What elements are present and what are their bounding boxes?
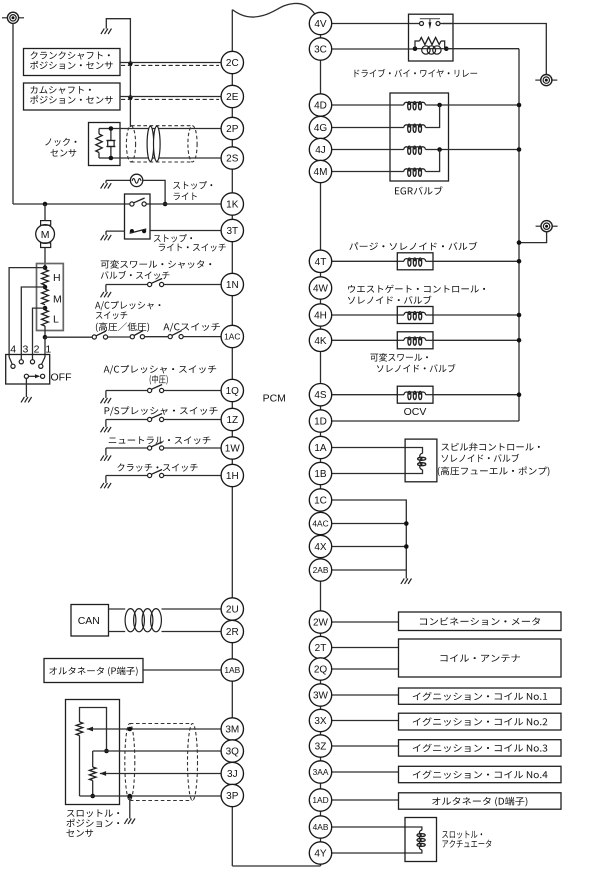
label clutch switch [117, 463, 197, 471]
switch AC pressure hi-lo a [92, 331, 107, 339]
label knock line1 [45, 138, 76, 146]
wire CAN 2U seg1 [109, 608, 126, 610]
coil EGR 4D [404, 102, 426, 110]
pin 1N [221, 273, 243, 295]
svg-text:4M: 4M [314, 167, 328, 178]
resistor H [42, 270, 49, 286]
wire EGR 4J out [425, 149, 519, 151]
label AC mid pressure line1 [104, 365, 217, 374]
wire EGR 4D out [425, 104, 519, 106]
label AC mid pressure line2 [150, 375, 168, 385]
svg-text:4J: 4J [315, 145, 326, 156]
label swirl shutter line2 [101, 271, 170, 280]
wire ignition coil 2 row [332, 720, 399, 722]
label H [53, 272, 61, 284]
pin 1AB [221, 659, 243, 681]
pin 3W [309, 684, 331, 706]
svg-text:3J: 3J [227, 769, 238, 780]
svg-text:3P: 3P [226, 791, 239, 802]
wire 4AC row [332, 523, 407, 525]
node feed 4J [517, 147, 522, 152]
coil solenoid 4T [398, 258, 434, 266]
wire 4D row [332, 104, 404, 106]
pin 1B [309, 462, 331, 484]
wire TPS inner left [79, 736, 81, 797]
wire combination meter row [332, 621, 399, 623]
label spill line1 [441, 443, 539, 452]
svg-text:2: 2 [34, 344, 40, 356]
lamp stop light [130, 174, 142, 186]
shield tube TPS [125, 724, 198, 801]
wire res bottom [44, 326, 46, 337]
label OFF [51, 372, 72, 384]
terminal T3 [536, 221, 558, 232]
label stop switch line2 [159, 244, 226, 252]
svg-text:4AC: 4AC [312, 519, 328, 529]
label spill line2 [442, 454, 520, 462]
label combination meter [420, 617, 540, 625]
box camshaft position sensor [24, 83, 121, 110]
wire ignition coil 4 row [332, 771, 399, 773]
wire 4K row right [433, 339, 519, 341]
label TPS line3 [66, 829, 93, 837]
svg-text:1AC: 1AC [224, 332, 240, 342]
node shield 3M [128, 727, 133, 732]
label pin3 [22, 344, 28, 356]
box solenoid 4K [397, 332, 433, 349]
wire T1 down to 1K row [12, 23, 14, 204]
pin 4D [309, 94, 331, 116]
relay contact [409, 19, 453, 30]
wire 1AC row seg1 [45, 336, 92, 338]
label swirl shutter line1 [101, 260, 211, 269]
pin 3Q [221, 740, 243, 762]
box solenoid 4H [397, 307, 433, 324]
pin 2E [221, 85, 243, 107]
label drive-by-wire relay [354, 69, 477, 77]
pin 3J [221, 762, 243, 784]
wire 4G row [332, 127, 404, 129]
label camshaft line1 [31, 86, 91, 94]
wire 4V row [332, 23, 409, 25]
svg-text:CAN: CAN [78, 615, 100, 627]
node feed 4H [517, 313, 522, 318]
ground G3 [101, 235, 112, 240]
svg-text:1H: 1H [226, 471, 239, 482]
pin 2R [221, 620, 243, 642]
wire PCM left bus [231, 10, 233, 866]
svg-text:4Y: 4Y [314, 849, 327, 860]
svg-text:3AA: 3AA [313, 767, 329, 777]
node res mid2 [43, 306, 48, 311]
wire 1AC row seg4 [183, 336, 221, 338]
box alternator P terminal [44, 659, 143, 683]
wire tap pin2 [33, 308, 46, 359]
wire 3T row [150, 230, 221, 232]
svg-text:M: M [53, 294, 62, 306]
wire 4M row [332, 171, 404, 173]
label neutral switch [109, 436, 211, 444]
switch clutch 1H row [101, 470, 222, 489]
svg-text:4X: 4X [314, 542, 327, 553]
wire 3Q row [93, 750, 222, 752]
node res mid1 [43, 285, 48, 290]
label TPS line1 [67, 809, 119, 817]
pin 1Z [221, 408, 243, 430]
pin 1W [221, 437, 243, 459]
svg-text:2S: 2S [226, 154, 239, 165]
wire 2E shield dashed [121, 98, 219, 100]
switch AC pressure mid 1Q row [101, 385, 222, 404]
svg-text:OFF: OFF [51, 372, 72, 384]
wire EGR 4G out [425, 105, 439, 127]
label PCM [263, 393, 286, 405]
node feed 4D [517, 103, 522, 108]
pin 4AC [309, 512, 331, 534]
wire PCM right bus [320, 12, 322, 866]
label stop light line2 [174, 192, 197, 200]
switch PS pressure 1Z row [101, 414, 222, 433]
wire 4K row left [332, 339, 398, 341]
pin 4M [309, 160, 331, 182]
switch neutral 1W row [101, 442, 222, 461]
relay coil wire [415, 46, 446, 54]
contact pin3 [19, 360, 23, 364]
svg-text:3: 3 [22, 344, 28, 356]
box alternator D terminal [399, 793, 562, 809]
label alternator D terminal [432, 797, 527, 807]
pin 4V [309, 12, 331, 34]
box combination meter [399, 612, 562, 631]
label AC pressure line1 [95, 301, 160, 310]
label pin1 [45, 344, 51, 356]
svg-text:4D: 4D [314, 101, 327, 112]
capacitor knock piezo [106, 141, 115, 147]
wire motor to resistors [44, 248, 46, 268]
svg-text:2T: 2T [315, 643, 327, 654]
pin 4J [309, 138, 331, 160]
coil solenoid 4S [398, 391, 434, 399]
switch stop lower closed [130, 229, 147, 233]
wire 4H row right [433, 314, 519, 316]
relay box drive-by-wire [409, 14, 454, 61]
svg-text:3W: 3W [313, 691, 329, 702]
label wastegate line1 [348, 285, 485, 293]
box CAN [71, 605, 109, 637]
wiper arrow 3M [87, 727, 93, 732]
wire tap pin1 [44, 337, 46, 357]
wire 4X row [332, 546, 407, 548]
contact pin4 [9, 357, 15, 368]
pin 4AB [309, 816, 331, 838]
wire TPS pot2 stem [92, 751, 94, 767]
box throttle actuator [405, 818, 437, 862]
pin 1A [309, 436, 331, 458]
knock internal rails [99, 129, 111, 159]
coil solenoid 4K [398, 337, 434, 345]
wire OFF to ground [25, 378, 27, 397]
label EGR valve [395, 186, 443, 194]
ground G2 [101, 183, 112, 188]
pin 3X [309, 709, 331, 731]
ground G11 [401, 579, 412, 584]
wire 2T row [332, 647, 399, 649]
label AC pressure line3 [96, 322, 149, 332]
svg-text:4: 4 [10, 344, 16, 356]
pin 1K [221, 193, 243, 215]
resistor TPS1 [76, 722, 83, 736]
label L [53, 314, 59, 326]
label AC pressure line2 [96, 311, 127, 319]
box EGR valve [390, 93, 449, 181]
wire 3T left [106, 231, 125, 235]
label wastegate line2 [348, 296, 432, 304]
wire lamp left [106, 180, 130, 183]
label crankshaft line1 [30, 51, 109, 59]
pin 2U [221, 598, 243, 620]
svg-text:2Q: 2Q [314, 665, 328, 676]
svg-text:1B: 1B [314, 469, 327, 480]
pin 3T [221, 219, 243, 241]
svg-text:1Z: 1Z [226, 415, 238, 426]
svg-text:2U: 2U [226, 605, 239, 616]
wire 3M row [87, 728, 221, 730]
node EGR 4D [437, 103, 442, 108]
svg-text:3Z: 3Z [315, 742, 327, 753]
pin 3M [221, 718, 243, 740]
twisted pair lens [147, 126, 160, 161]
wire 2AB row [332, 569, 407, 571]
label swirl solenoid line2 [377, 364, 456, 372]
node feed 4K [517, 338, 522, 343]
label alternator P [49, 667, 137, 677]
switch stop upper [130, 198, 146, 206]
wire 2C shield dashed [121, 64, 219, 66]
pin 2T [309, 636, 331, 658]
twisted loops CAN [125, 609, 161, 632]
ground G10 [124, 819, 135, 824]
svg-text:1A: 1A [314, 443, 327, 454]
wire relay out coil [446, 48, 519, 50]
svg-text:4H: 4H [314, 311, 327, 322]
svg-text:PCM: PCM [263, 393, 286, 405]
svg-text:4K: 4K [314, 336, 327, 347]
label crankshaft line2 [30, 61, 113, 69]
ground G1 stem and corner [106, 19, 130, 127]
node shield 2C [128, 61, 133, 66]
coil EGR 4M [404, 168, 426, 176]
svg-text:3M: 3M [225, 725, 239, 736]
wire 1B row [332, 470, 423, 474]
svg-text:4W: 4W [313, 284, 329, 295]
coil EGR 4G [404, 124, 426, 132]
box coil antenna [399, 639, 562, 677]
node 4X [404, 544, 409, 549]
node 4AC [404, 521, 409, 526]
pin 1Q [221, 379, 243, 401]
wire PCM bottom jumper [232, 853, 320, 866]
relay resistor [415, 37, 445, 48]
svg-text:4V: 4V [314, 19, 327, 30]
box crankshaft position sensor [24, 49, 121, 76]
wire ignition coil 3 row [332, 745, 399, 747]
wire CAN 2R seg2 [162, 631, 222, 633]
svg-text:2AB: 2AB [313, 565, 329, 575]
motor M brushes [41, 221, 51, 248]
node EGR 4J [437, 147, 442, 152]
pin 3C [309, 38, 331, 60]
pin 2W [309, 611, 331, 633]
wire PCM top wavy boundary [232, 3, 315, 17]
wire 1D row [332, 420, 519, 422]
resistor knock [96, 134, 102, 153]
svg-text:3T: 3T [226, 226, 238, 237]
wire 4AB row [332, 827, 422, 830]
wire 2E signal [120, 96, 221, 98]
motor M [36, 225, 55, 244]
label TPS line2 [66, 819, 119, 827]
svg-text:4T: 4T [315, 257, 327, 268]
node TPS 3Q [104, 749, 109, 754]
node feed 4T [517, 259, 522, 264]
wire 3J row [100, 773, 221, 775]
box ignition coil 4 [399, 766, 562, 782]
svg-text:3C: 3C [314, 45, 327, 56]
wire 3C row [332, 48, 415, 50]
svg-text:H: H [53, 272, 61, 284]
pin 4Y [309, 842, 331, 864]
pin 4G [309, 116, 331, 138]
switch OFF [24, 374, 44, 378]
svg-text:4S: 4S [314, 390, 327, 401]
pin 2P [221, 117, 243, 139]
svg-text:1Q: 1Q [226, 386, 240, 397]
label spill line3 [438, 467, 550, 477]
box ignition coil 2 [399, 713, 562, 730]
wire alternator D terminal row [332, 799, 399, 801]
pin 3P [221, 784, 243, 806]
shield tube knock pair [126, 126, 197, 162]
node T3 feed [517, 240, 522, 245]
label ignition coil 2 [413, 717, 548, 726]
box blower resistor network [37, 264, 64, 331]
svg-text:L: L [53, 314, 59, 326]
box solenoid 4S [397, 386, 433, 403]
wire 4S row right [433, 394, 519, 396]
wire relay out top [443, 24, 547, 75]
svg-text:2C: 2C [226, 58, 239, 69]
wire lamp to 1K row [143, 180, 165, 204]
pin 3Z [309, 735, 331, 757]
pin 2AB [309, 559, 331, 581]
pin 4X [309, 535, 331, 557]
label ignition coil 3 [413, 744, 548, 753]
svg-text:1N: 1N [226, 280, 239, 291]
wire 1K row [13, 203, 221, 205]
terminal battery T1 [2, 12, 24, 23]
pin 1H [221, 464, 243, 486]
svg-text:2E: 2E [226, 92, 239, 103]
wire ignition coil 1 row [332, 694, 399, 696]
node shield 3P [128, 794, 133, 799]
svg-text:1AD: 1AD [312, 795, 328, 805]
wire 2Q row [332, 668, 399, 670]
wire 2C signal [120, 62, 221, 64]
label purge solenoid [349, 242, 477, 250]
pin 2S [221, 147, 243, 169]
node knock top [109, 126, 114, 131]
wire 1A row [332, 448, 423, 454]
pin 1D [309, 410, 331, 432]
switch swirl shutter 1N row [101, 279, 222, 298]
switch AC pressure hi-lo b [130, 331, 144, 339]
node knock bottom [109, 156, 114, 161]
box knock sensor [89, 123, 121, 166]
svg-text:1: 1 [45, 344, 51, 356]
label coil antenna [440, 654, 520, 662]
pin 4S [309, 384, 331, 406]
pin 1AD [309, 789, 331, 811]
pin 1C [309, 489, 331, 511]
node feed 4S [517, 392, 522, 397]
node TPS bottom [90, 794, 95, 799]
wire 4J row [332, 149, 404, 151]
wire 1AC row seg2 [108, 336, 131, 338]
pin 4H [309, 304, 331, 326]
label swirl solenoid line1 [370, 353, 428, 362]
node res top [43, 265, 48, 270]
pin 2Q [309, 658, 331, 680]
svg-text:1D: 1D [314, 417, 327, 428]
label stop switch line1 [154, 234, 192, 242]
svg-text:2P: 2P [226, 124, 239, 135]
coil spill valve [418, 453, 426, 469]
wire 2P [111, 128, 221, 130]
wire T3 to feed [519, 232, 547, 243]
box ignition coil 1 [399, 688, 562, 704]
pin 2C [221, 51, 243, 73]
wiper arrow 3J [100, 771, 106, 776]
wire CAN 2U seg2 [162, 608, 222, 610]
relay coil node left [413, 46, 418, 51]
box spill valve solenoid [405, 439, 437, 482]
label pin2 [34, 344, 40, 356]
node shield 2E [128, 95, 133, 100]
wire 4Y row [332, 850, 422, 853]
pin 3AA [309, 761, 331, 783]
wire 4T row right [433, 260, 519, 262]
svg-text:3Q: 3Q [226, 747, 240, 758]
wire 4T row left [332, 260, 398, 262]
contact pin2 [30, 360, 34, 364]
node motor branch [43, 202, 48, 207]
wire motor stem [44, 204, 46, 221]
label ignition coil 1 [413, 692, 547, 701]
box ignition coil 3 [399, 740, 562, 756]
box stop light switch [125, 194, 151, 239]
wire TPS pot2 bottom [92, 781, 94, 797]
svg-text:1K: 1K [226, 200, 239, 211]
label ignition coil 4 [413, 770, 548, 779]
wire right vertical feed [518, 49, 520, 421]
label throttle act line2 [442, 840, 491, 848]
svg-text:1C: 1C [314, 496, 327, 507]
box fan switch connector [6, 355, 50, 385]
relay coil node right [444, 46, 449, 51]
pin 4T [309, 250, 331, 272]
wire 1AB row [143, 669, 221, 671]
label OCV [404, 406, 427, 418]
